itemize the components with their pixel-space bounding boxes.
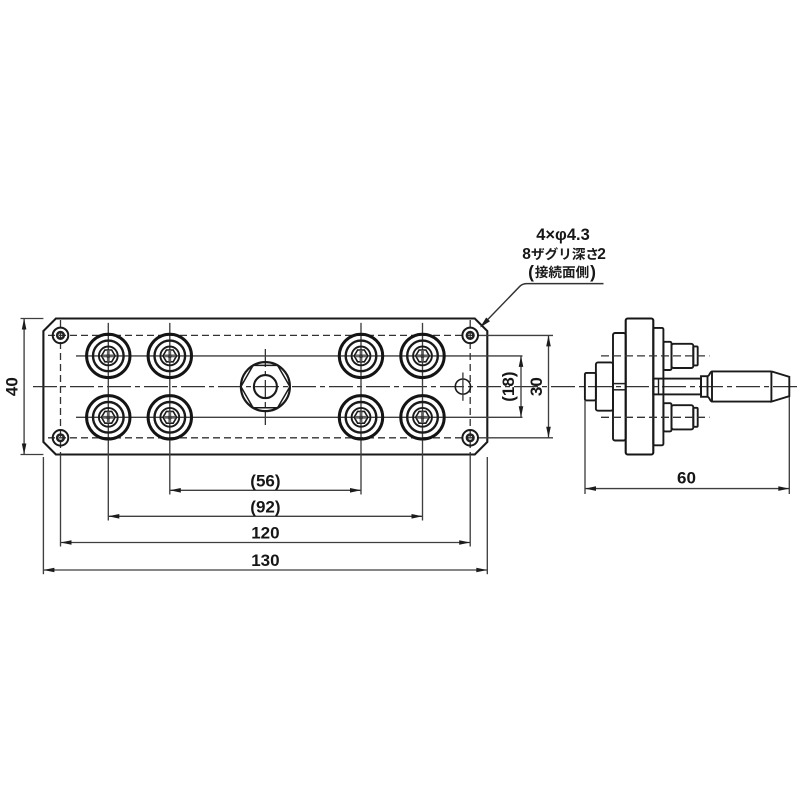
dimension 120 mounting hole spacing <box>61 542 471 544</box>
column line C1 <box>107 323 109 521</box>
svg-text:120: 120 <box>251 524 279 543</box>
column line C2 <box>169 323 171 495</box>
connector right B1 <box>339 396 382 439</box>
svg-text:(56): (56) <box>250 472 280 491</box>
side view: cable cone end <box>771 371 789 401</box>
connector left B1 <box>87 396 130 439</box>
svg-text:(18): (18) <box>499 371 518 401</box>
side view: gasket plate <box>613 333 626 441</box>
side view: center pin seam <box>614 383 626 385</box>
dimension (56) inner column spacing <box>170 489 361 491</box>
extension lines below plate <box>42 457 44 574</box>
side view: main flange plate <box>626 319 654 455</box>
side view: upper connector barrel <box>663 342 671 370</box>
mounting hole vertical centerline right <box>469 320 471 454</box>
svg-text:(92): (92) <box>250 498 280 517</box>
leader line to mounting hole <box>481 284 604 327</box>
lower connector row line <box>76 416 523 418</box>
horizontal centerline <box>33 386 798 388</box>
dimension 40 (plate height) <box>21 318 44 320</box>
connector left A1 <box>87 334 130 377</box>
side view: middle bushing <box>596 362 613 410</box>
small pilot hole on centerline <box>455 379 470 394</box>
mounting hole vertical centerline left <box>60 320 62 454</box>
svg-text:40: 40 <box>2 377 21 396</box>
connector right A1 <box>339 334 382 377</box>
svg-text:130: 130 <box>251 551 279 570</box>
connector left B2 <box>148 396 191 439</box>
svg-text:2: 2 <box>597 246 606 263</box>
dimension (18) (connector row spacing) <box>520 356 522 417</box>
mounting hole M2 (4x phi4.3 counterbore) <box>462 328 478 344</box>
connector right A2 <box>401 334 444 377</box>
upper connector row line <box>76 355 523 357</box>
svg-text:): ) <box>590 262 596 282</box>
dimension 30 (mounting hole row spacing) <box>548 335 550 437</box>
side view: center shaft <box>653 379 701 395</box>
mounting hole M1 (4x phi4.3 counterbore) <box>53 328 69 344</box>
dimension 60 (side view length) <box>584 401 586 495</box>
connector right B2 <box>401 396 444 439</box>
column line C3 <box>360 323 362 495</box>
side view: left tip bushing <box>585 373 596 401</box>
side view: lower row dashed centerline <box>601 416 710 418</box>
connector left A2 <box>148 334 191 377</box>
svg-text:60: 60 <box>677 469 696 488</box>
svg-text:8: 8 <box>522 246 531 263</box>
side view: upper row dashed centerline <box>601 355 710 357</box>
svg-text:(: ( <box>528 262 534 282</box>
front view plate outline <box>43 319 487 455</box>
side view: collar <box>701 376 708 397</box>
dimension (92) outer column spacing <box>108 515 422 517</box>
side view: cable barrel <box>712 371 771 401</box>
vertical centerline of hex gland <box>264 349 266 425</box>
svg-text:30: 30 <box>527 377 546 396</box>
mounting hole M4 (4x phi4.3 counterbore) <box>462 430 478 446</box>
mounting hole horizontal centerline bottom <box>48 437 478 439</box>
mounting hole M3 (4x phi4.3 counterbore) <box>53 430 69 446</box>
mounting hole horizontal centerline top <box>48 334 478 336</box>
column line C4 <box>422 323 424 521</box>
svg-text:4×φ4.3: 4×φ4.3 <box>536 226 590 244</box>
side view: rear thin plate <box>653 328 663 445</box>
center hex cable gland <box>241 362 290 411</box>
side view: lower connector barrel <box>663 403 671 431</box>
side view: flare into cable barrel <box>708 371 713 401</box>
dimension 130 plate width <box>43 569 487 571</box>
